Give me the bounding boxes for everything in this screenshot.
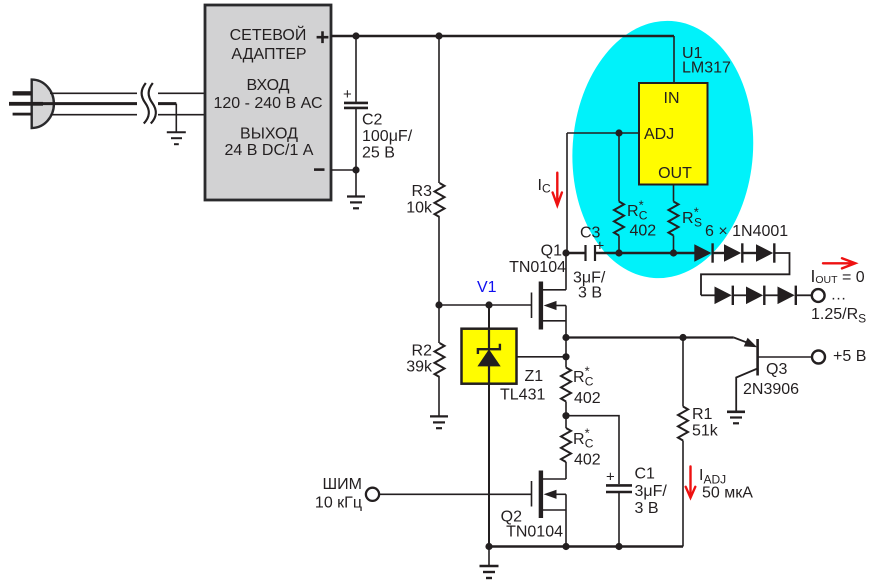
svg-text:120 - 240 В АС: 120 - 240 В АС [213,95,322,112]
svg-text:2N3906: 2N3906 [743,381,799,398]
capacitor C2 [343,36,413,170]
output terminal [812,289,825,302]
mains plug [9,80,54,128]
resistor R3 [406,183,444,217]
svg-text:OUT: OUT [658,165,692,182]
svg-text:ВЫХОД: ВЫХОД [240,126,298,143]
svg-text:402: 402 [630,223,657,240]
wire: adapter minus to C2 [331,169,356,171]
resistor RC* 402 (middle) [561,364,601,408]
svg-text:АДАПТЕР: АДАПТЕР [231,46,306,63]
ground (main) [480,566,499,578]
svg-text:24 В DC/1 А: 24 В DC/1 А [225,142,314,159]
wire: neutral to ground [175,104,177,133]
wire: C2 to ground [355,170,357,197]
label IC with red arrow [538,173,562,206]
node: rail/Q1 drain [562,249,569,256]
node: C2 minus [352,166,359,173]
ground (mains cable) [167,132,186,144]
svg-text:C: C [585,437,594,451]
svg-text:3 В: 3 В [635,500,659,517]
svg-text:LM317: LM317 [682,60,731,77]
cable break symbol [142,83,156,124]
wire: ADJ horizontal [567,132,639,134]
wire: rail C3 to diodes [596,252,696,254]
svg-text:R3: R3 [412,183,433,200]
svg-text:C3: C3 [580,225,601,242]
svg-text:C: C [639,209,648,223]
wire: rail to ground [488,547,490,566]
svg-text:Q3: Q3 [766,361,787,378]
diode D2 [724,243,742,262]
node: + rail / C2 [352,32,359,39]
wire: R3 top [438,36,440,183]
wire: V1 node to R2 [438,305,440,343]
wire: R2 to ground [438,377,440,416]
svg-text:1.25/RS: 1.25/RS [811,306,866,326]
svg-text:Q1: Q1 [541,243,562,260]
svg-text:R: R [573,431,585,448]
node: ADJ / Rc [615,129,622,136]
svg-text:402: 402 [574,452,601,469]
resistor RS* (sense) [669,202,703,236]
svg-text:ВХОД: ВХОД [246,77,289,94]
svg-text:6 × 1N4001: 6 × 1N4001 [705,223,788,240]
svg-text:ADJ: ADJ [644,126,674,143]
svg-text:C2: C2 [362,112,383,129]
svg-text:C: C [585,375,594,389]
resistor RC* 402 (upper) [614,198,656,240]
wire: Z1 ref to Rc chain [517,356,567,358]
node: rail/Q2 source [562,543,569,550]
diode D4 [715,286,733,305]
svg-text:402: 402 [574,390,601,407]
node: rail/Rc [615,249,622,256]
svg-text:S: S [694,216,702,230]
ground (C2) [347,197,365,209]
adapter box (СЕТЕВОЙ АДАПТЕР) [205,5,331,200]
svg-text:R: R [627,203,639,220]
bottom rail [489,545,683,547]
svg-text:IN: IN [664,90,680,107]
svg-text:TN0104: TN0104 [509,259,566,276]
svg-text:СЕТЕВОЙ: СЕТЕВОЙ [230,25,307,44]
+5V terminal [812,348,866,365]
label IOUT with red arrow [811,258,865,286]
wire: Rc chain vertical [565,338,567,368]
svg-text:ШИМ: ШИМ [323,476,363,493]
resistor RC* 402 (lower) [561,426,601,469]
wire: Z1 anode down to bottom rail [488,384,490,547]
svg-text:V1: V1 [477,279,497,296]
node: V1 / Z1 [485,301,492,308]
regulator U1 LM317 [639,45,731,185]
transistor Q1 TN0104 [509,243,566,338]
wire: OUT to Rs [673,185,675,202]
node: rail/Rs [670,249,677,256]
wire: plug line (top) [50,92,205,94]
ground (Q3) [727,412,745,424]
shunt reference Z1 TL431 [462,329,546,404]
wire [742,252,756,254]
wire: Rc to Q2 drain [565,462,567,479]
node: rail/Z1 anode [485,543,492,550]
resistor R1 [678,338,719,441]
PWM input terminal [315,476,379,512]
svg-text:+: + [606,469,615,486]
node: C1 tap [562,412,569,419]
svg-text:50 мкА: 50 мкА [702,485,753,502]
wire: ADJ vertical down [566,133,568,253]
svg-text:Z1: Z1 [525,368,544,385]
wire [764,294,777,296]
svg-text:39k: 39k [406,359,433,376]
svg-text:R1: R1 [692,406,713,423]
wire: mid rail Q1 source to Q3 [566,336,734,338]
transistor Q2 TN0104 [501,471,566,547]
capacitor C3 [566,225,606,302]
diode D1 [694,243,712,262]
svg-text:25 В: 25 В [362,145,395,162]
wire: to output terminal [796,294,812,296]
svg-text:10 кГц: 10 кГц [315,495,362,512]
diode D5 [746,286,764,305]
node: R1 top [679,334,686,341]
wire: Rs bottom [673,236,675,254]
wire [701,294,715,296]
svg-text:+5 В: +5 В [833,348,866,365]
wire: plug earth (bottom) [51,114,205,116]
wire: Z1 cathode from V1 node [488,305,490,330]
label IADJ with red arrow [686,467,754,502]
wire: plug neutral (middle, thick) [43,102,176,105]
svg-text:10k: 10k [406,200,433,217]
diode D6 [778,286,796,305]
capacitor C1 [606,466,667,547]
wire: Rc top [618,133,620,202]
wire: between Rc resistors [565,402,567,429]
wire: tap to C1 [566,416,619,484]
node: Z1 ref [562,353,569,360]
node: + rail / R3 [435,32,442,39]
wire: R1 to bottom rail [682,441,684,547]
wire: PWM to Q2 gate [379,493,532,495]
transistor Q3 2N3906 [734,338,812,412]
wire [733,294,746,296]
svg-text:TN0104: TN0104 [506,524,563,541]
ground (R2) [430,416,448,428]
svg-text:51k: 51k [692,423,719,440]
wire: V1 node to Q1 gate [439,304,532,306]
wire: to second diode row [701,253,790,295]
wire: + rail from adapter [331,35,674,37]
node: Q1 source [562,334,569,341]
node: rail/C1 [615,543,622,550]
resistor R2 [406,343,444,378]
node: R3/R2/V1 [435,301,442,308]
svg-text:+: + [343,86,352,103]
wire: drop to LM317 IN [673,36,675,83]
svg-text:100μF/: 100μF/ [362,128,413,145]
svg-text:3μF/: 3μF/ [635,483,668,500]
svg-text:…: … [831,287,847,304]
svg-text:3 В: 3 В [578,285,602,302]
wire [713,252,724,254]
svg-text:R: R [573,369,585,386]
diode D3 [756,243,774,262]
svg-text:R2: R2 [412,343,433,360]
wire: Rc bottom [618,236,620,254]
cyan highlight ellipse [564,15,762,285]
svg-text:C1: C1 [635,466,656,483]
wire: R3 bottom to V1 node [438,217,440,305]
svg-text:R: R [682,210,694,227]
svg-text:TL431: TL431 [500,387,545,404]
